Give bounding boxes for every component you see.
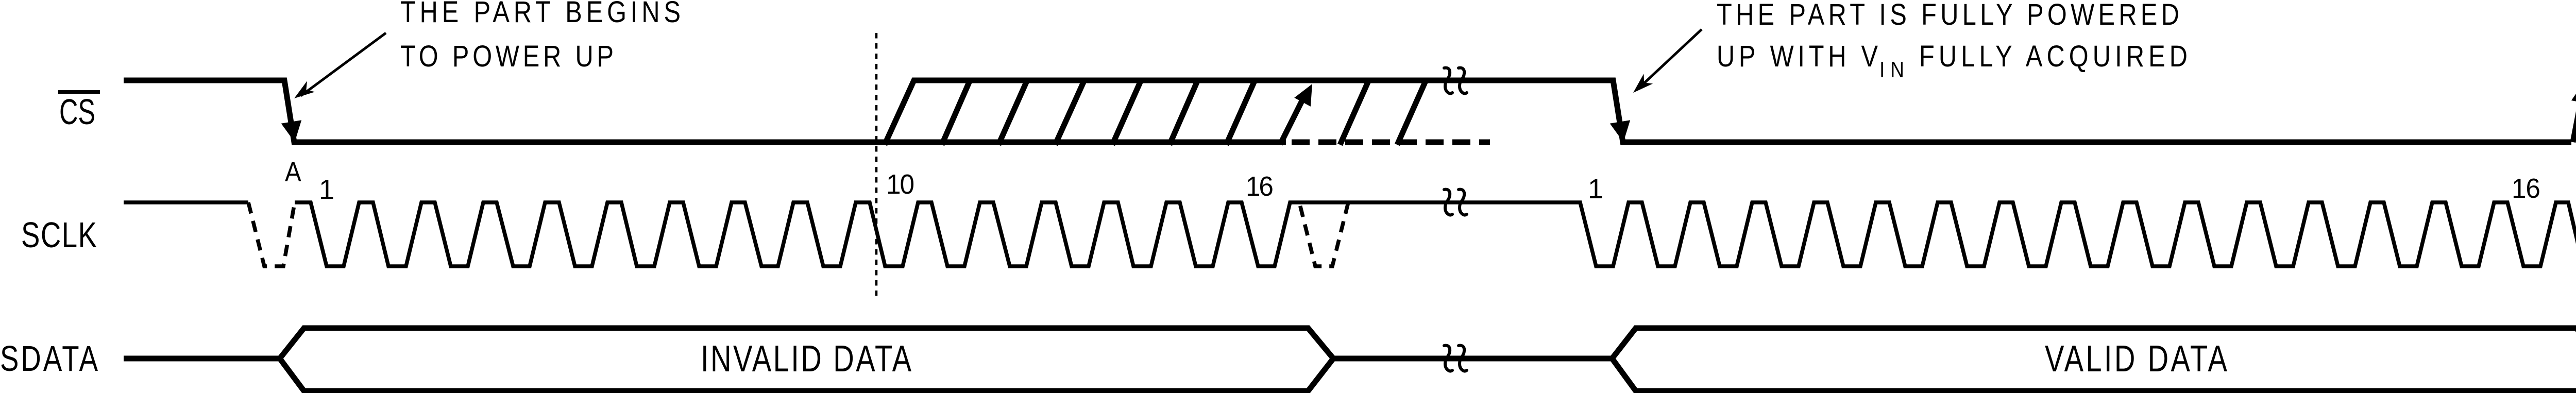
svg-text:UP WITH V: UP WITH V: [1717, 40, 1878, 73]
svg-text:IN: IN: [1879, 57, 1904, 82]
svg-text:SCLK: SCLK: [21, 215, 97, 255]
svg-text:A: A: [285, 156, 301, 187]
svg-text:10: 10: [886, 169, 914, 200]
svg-text:1: 1: [1588, 174, 1603, 204]
svg-text:SDATA: SDATA: [0, 339, 98, 379]
svg-text:1: 1: [319, 174, 334, 205]
svg-text:16: 16: [1246, 171, 1274, 202]
svg-text:16: 16: [2512, 173, 2540, 204]
svg-text:TO POWER UP: TO POWER UP: [400, 40, 614, 73]
svg-text:CS: CS: [59, 92, 95, 132]
